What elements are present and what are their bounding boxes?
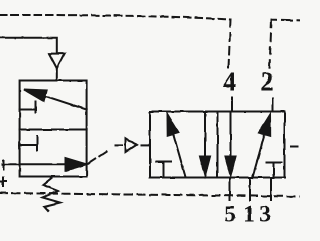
wire: port 5 stub [229,178,231,201]
valve V1 left box: vertical flow arrow (down) [204,112,206,159]
pilot actuator arrow (open, pointing down) on valve Z1 [49,54,65,69]
valve V1 position divider [217,112,219,178]
valve Z1 lower blocked port [20,137,38,151]
svg-text:4: 4 [223,67,237,97]
wire: port 3 stub [270,178,272,201]
valve Z1 output flow arrow (filled, right) [3,163,69,165]
wire: port 1 stub [249,178,251,201]
wire: arrow to valve Z1 top [56,68,58,80]
valve Z1 body (3/2 pilot valve, vertical) [20,81,87,177]
wire: supply line to pilot arrow [0,38,57,54]
wire: dashed pilot line from Z1 to valve V1 [89,150,110,164]
svg-text:2: 2 [260,67,274,97]
wire: top pilot dashed line (net to port 4) [0,15,230,20]
valve Z1 upper blocked port [20,102,36,113]
valve V1 body (5/2 directional valve) [150,112,285,178]
wire: port 4 stub [231,98,233,112]
wire: small dash at right of valve V1 [291,146,298,148]
valve V1 left box: diagonal flow arrow (up) [173,133,186,177]
wire: dash into valve V1 left edge [142,144,151,146]
pilot arrow (open, pointing right) on valve V1 [126,138,137,152]
valve Z1 upper flow arrow (filled, up-left) [45,96,87,110]
spring return of valve Z1 [43,178,61,211]
valve V1 left box: blocked port [156,162,171,178]
svg-text:3: 3 [259,202,271,228]
valve V1 right box: diagonal flow arrow 1 to 2 (up) [253,134,265,177]
wire: dashed vertical drop to port 4 [229,20,231,69]
valve V1 right box: blocked port 3 [267,163,282,178]
wire: bottom dashed line [0,193,300,197]
wire: top-right dashed line (net to port 2) [272,19,301,22]
valve V1 right box: vertical flow arrow 4 to 5 (down) [230,112,232,159]
valve Z1 position divider [20,129,87,131]
terminal tick (cropped line) lower [0,178,6,187]
terminal tick (cropped line) upper [3,161,5,170]
wire: dashed vertical drop to port 2 [270,20,272,68]
svg-text:1: 1 [243,202,255,228]
wire: port 2 stub [272,99,274,112]
svg-text:5: 5 [224,202,236,228]
